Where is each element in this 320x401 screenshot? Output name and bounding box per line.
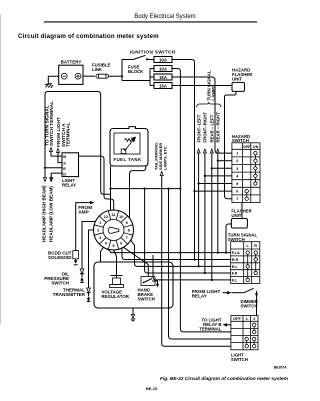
page edge shadow: [0, 14, 1, 324]
fuel tank tab wire to connector pin9: [130, 166, 146, 218]
wire tail lamp trunk to light switch row5: [162, 176, 231, 347]
light switch contacts col1: [245, 337, 248, 348]
svg-text:BE957A: BE957A: [274, 366, 287, 370]
svg-text:AMP: AMP: [78, 210, 88, 215]
wire hazard row6: [195, 190, 232, 192]
wire battery negative to ground: [48, 76, 58, 83]
svg-text:UNIT: UNIT: [231, 213, 241, 218]
svg-text:Fig. BE-22 Circuit diagram of: Fig. BE-22 Circuit diagram of combinatio…: [160, 376, 289, 382]
wire fuse2 output trunk (long, to light switch row 3): [172, 69, 231, 332]
svg-text:REAR – RIGHT: REAR – RIGHT: [216, 112, 221, 143]
svg-text:LAMPS: LAMPS: [211, 85, 216, 100]
turn signal switch L contacts: [246, 251, 249, 282]
svg-text:F.L: F.L: [232, 279, 238, 283]
svg-text:R.R: R.R: [232, 258, 239, 262]
wire fuel sender to meter feed node: [110, 166, 112, 210]
wire hazard row2: [218, 160, 232, 162]
wire fusible link to junction: [109, 75, 123, 77]
light relay U4: [62, 153, 79, 188]
arrow rear-right lamp: [216, 149, 219, 153]
wire meter to F.R row: [145, 189, 231, 273]
svg-text:OFF: OFF: [243, 145, 251, 149]
combination meter connector J1: [94, 210, 134, 250]
svg-text:B: B: [63, 154, 66, 159]
arrow to turn signal switch terminal: [50, 148, 53, 152]
node flasher / FLA row: [225, 252, 227, 254]
voltage regulator: [102, 276, 130, 300]
tail-parking lamps feed label (rotated): [153, 142, 167, 170]
wire meter to FLA row: [105, 248, 231, 252]
svg-text:FRONT–LEFT: FRONT–LEFT: [196, 114, 201, 142]
svg-text:BATTERY: BATTERY: [61, 60, 82, 65]
svg-text:SOLENOID: SOLENOID: [48, 255, 72, 260]
wire connector pin2 to thermal transmitter: [89, 230, 94, 288]
turn signal switch R contacts: [254, 251, 257, 275]
wire connector pin1<!-- wire connector pin1 to oil pressure switch: [82, 222, 96, 270]
arrow to tail lamps: [160, 172, 163, 176]
node fuse2 trunk / FLA row: [179, 252, 181, 254]
wire relay B to connector pin10: [79, 156, 114, 210]
svg-text:SWITCH: SWITCH: [51, 281, 69, 286]
wire hazard switch to flasher unit: [241, 203, 243, 219]
dimmer switch SW4: [232, 288, 259, 315]
wire relay E: [45, 167, 62, 169]
svg-text:OFF: OFF: [233, 316, 242, 321]
fuse F3 15A: [154, 74, 172, 80]
arrow headlamp low beam: [50, 178, 53, 182]
wire connector pin5 to voltage regulator: [114, 250, 117, 276]
light switch contacts col2: [253, 323, 256, 348]
hazard switch ON contacts: [254, 151, 257, 185]
wire hazard row5: [199, 183, 232, 185]
svg-text:TRANSMITTER: TRANSMITTER: [53, 292, 86, 297]
wire rear-right lamp to FLA row: [217, 153, 219, 253]
wire connector pin4 to meter box: [101, 247, 104, 262]
ignition switch SW1: [130, 50, 176, 61]
node loop / relay E: [44, 167, 46, 169]
svg-text:LINK: LINK: [92, 67, 103, 72]
fuel tank T1: [110, 127, 148, 166]
svg-text:SWITCH TERMINAL: SWITCH TERMINAL: [49, 101, 55, 146]
svg-text:HEADLAMP (HIGH BEAM): HEADLAMP (HIGH BEAM): [42, 185, 47, 242]
svg-text:IGNITION SWITCH: IGNITION SWITCH: [130, 50, 176, 55]
svg-text:10: 10: [119, 214, 124, 219]
wire hazard flasher to hazard row7: [225, 91, 237, 198]
arrow light switch row2 to light relay: [227, 324, 231, 326]
oil pressure switch: [44, 269, 84, 286]
wire junction to fuse bus: [122, 76, 150, 80]
svg-text:Circuit diagram of combination: Circuit diagram of combination meter sys…: [18, 33, 159, 40]
brace over turn signal lamp wires: [197, 102, 222, 107]
svg-text:E: E: [63, 166, 66, 171]
svg-text:SWITCH: SWITCH: [232, 138, 249, 143]
wire relay B to turn signal arrow: [51, 151, 62, 156]
svg-text:15A: 15A: [159, 83, 168, 88]
arrow from light relay: [223, 292, 228, 294]
wire relay S to light switch arrow: [58, 152, 62, 163]
light switch SW5: [231, 316, 258, 350]
arrow headlamp high beam: [44, 178, 47, 182]
wire from amp: [76, 203, 91, 251]
node junction at battery feed: [121, 75, 123, 77]
svg-text:R: R: [254, 243, 257, 248]
wire junction up to ignition switch: [122, 60, 133, 77]
ground (battery): [45, 84, 53, 88]
svg-text:TERMINAL: TERMINAL: [66, 122, 72, 147]
svg-text:BLOCK: BLOCK: [128, 69, 144, 74]
wire trunk to light switch row4: [169, 189, 231, 339]
svg-text:SWITCH: SWITCH: [228, 237, 245, 242]
wire front-left lamp to R.L row: [198, 153, 200, 266]
wire connector pin6 to hand brake switch: [124, 247, 149, 276]
fuel sender resistor: [121, 137, 135, 153]
wire flasher unit to FLA row: [226, 224, 231, 253]
thermal transmitter: [53, 288, 91, 302]
svg-text:RELAY: RELAY: [192, 294, 207, 299]
svg-text:SWITCH: SWITCH: [138, 297, 155, 302]
turn signal switch SW3: [228, 233, 258, 242]
svg-text:D: D: [63, 171, 66, 176]
svg-text:12: 12: [104, 214, 109, 219]
svg-text:BE-15: BE-15: [146, 386, 158, 391]
hazard switch OFF contacts: [245, 189, 248, 200]
wire fuse3 output to hazard row1: [172, 77, 232, 153]
svg-text:HEADLAMP (LOW BEAM): HEADLAMP (LOW BEAM): [48, 186, 53, 242]
svg-text:ON: ON: [253, 145, 259, 149]
flasher unit U3: [231, 209, 252, 229]
arrow front-right lamp: [203, 149, 206, 153]
hand brake switch: [138, 277, 160, 302]
hazard switch SW2: [232, 134, 250, 143]
wire battery loop to connector pin12: [48, 92, 111, 195]
svg-text:F.LA: F.LA: [232, 251, 240, 255]
wire meter to R.L row: [131, 240, 231, 266]
svg-text:FUEL TANK: FUEL TANK: [114, 157, 142, 162]
fuse F4 15A: [154, 83, 172, 89]
bcdd cut solenoid: [48, 251, 79, 265]
svg-text:TERMINAL: TERMINAL: [199, 327, 222, 332]
svg-text:UNIT: UNIT: [232, 77, 242, 82]
keyhole: [108, 227, 119, 233]
battery B1: [59, 60, 83, 85]
to light relay label: [199, 318, 222, 332]
wire relay D to low beam: [51, 173, 62, 181]
wire meter feed horizontal: [111, 188, 181, 190]
arrow from light switch terminal: [57, 149, 60, 153]
wire fuse4 output to hazard flasher unit: [172, 85, 232, 87]
wire hazard row3: [212, 167, 232, 169]
svg-text:REGULATOR: REGULATOR: [102, 294, 130, 299]
hazard flasher unit U2: [232, 68, 253, 92]
svg-text:15A: 15A: [159, 75, 168, 80]
svg-text:S: S: [63, 160, 66, 165]
header rule: [44, 21, 257, 22]
svg-text:10A: 10A: [159, 66, 168, 71]
to turn signal switch terminal label (rotated): [44, 101, 55, 146]
wire meter to R.R row: [122, 247, 231, 259]
meter box ground: [131, 308, 136, 321]
svg-text:F.R: F.R: [232, 272, 238, 276]
from light relay label: [192, 289, 221, 299]
svg-text:Body Electrical System: Body Electrical System: [134, 14, 195, 20]
turn signal lamps label (rotated): [207, 70, 217, 100]
node meter feed / fuel sender: [109, 188, 111, 190]
wire fuse1 output trunk to hazard row6: [172, 60, 195, 260]
fusible link FL: [92, 63, 111, 79]
node fuse1 trunk / hazard row6: [193, 190, 195, 192]
from amp label: [78, 205, 92, 215]
wire fuse bus vertical: [149, 69, 151, 86]
light switch label: [231, 353, 248, 363]
wire meter to F.L row: [153, 255, 231, 280]
wire hazard row4: [205, 175, 232, 177]
svg-text:FRONT–RIGHT: FRONT–RIGHT: [203, 112, 208, 143]
arrow rear-left lamp: [210, 149, 213, 153]
wire rear-left lamp to F.L row: [211, 153, 213, 280]
wire battery positive to fusible link: [83, 75, 95, 77]
arrow front-left lamp: [197, 149, 200, 153]
svg-text:LAMPS, ETC.: LAMPS, ETC.: [162, 145, 167, 170]
combination meter box: [94, 262, 173, 308]
svg-text:SWITCH: SWITCH: [241, 304, 258, 309]
node meter feed / light switch row4 trunk: [167, 188, 169, 190]
svg-text:REAR – LEFT: REAR – LEFT: [210, 114, 215, 142]
fuse F2 10A: [154, 66, 172, 72]
fuse F1 10A: [154, 57, 172, 63]
svg-text:SWITCH: SWITCH: [231, 357, 248, 362]
svg-text:R.L: R.L: [232, 265, 239, 269]
svg-text:10A: 10A: [159, 57, 168, 62]
wire front-right lamp to F.R row: [204, 153, 206, 273]
svg-text:RELAY: RELAY: [62, 182, 76, 187]
from light switch terminal label (rotated): [56, 117, 71, 147]
node fuse2 trunk / meter feed: [179, 188, 181, 190]
